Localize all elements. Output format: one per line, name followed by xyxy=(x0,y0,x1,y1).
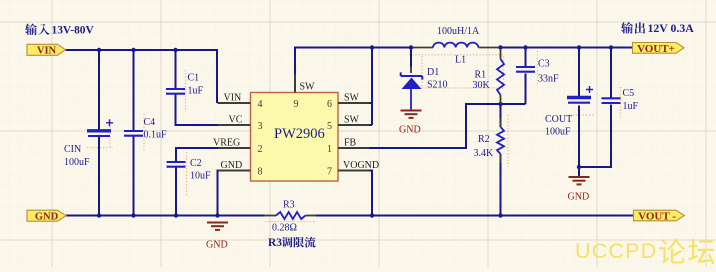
selection mark L1 D1 xyxy=(409,55,504,88)
wire VREG to C2 xyxy=(176,148,218,162)
svg-text:GND: GND xyxy=(399,125,421,136)
svg-text:100uF: 100uF xyxy=(545,127,571,138)
wire R2 bottom xyxy=(500,154,502,216)
resistor R1 30K xyxy=(500,48,502,60)
svg-text:CIN: CIN xyxy=(64,144,81,155)
pin 1 FB stub xyxy=(338,147,369,149)
selection mark C1 xyxy=(185,70,187,112)
wire C5 bottom joins COUT xyxy=(579,105,611,168)
wire bottom rail left xyxy=(66,215,265,217)
svg-text:C1: C1 xyxy=(188,73,200,84)
selection mark C4 xyxy=(143,114,145,152)
capacitor C4 0.1uF xyxy=(124,131,143,136)
pin 9 SW stub top xyxy=(294,74,296,93)
selection mark C2 xyxy=(186,152,188,196)
svg-text:3.4K: 3.4K xyxy=(474,148,495,159)
svg-text:1uF: 1uF xyxy=(623,101,639,112)
svg-text:3: 3 xyxy=(258,121,263,132)
wire D1 top xyxy=(410,48,412,69)
svg-text:VIN: VIN xyxy=(37,46,57,57)
resistor R2 3.4K xyxy=(500,118,502,127)
svg-text:S210: S210 xyxy=(427,80,448,91)
svg-text:0.28Ω: 0.28Ω xyxy=(272,223,297,234)
wire COUT top xyxy=(578,48,580,98)
capacitor C3 33nF xyxy=(516,67,535,72)
svg-text:SW: SW xyxy=(344,93,360,104)
wire C4 bottom xyxy=(133,136,135,216)
wire C3 bottom xyxy=(525,74,527,105)
svg-text:GND: GND xyxy=(206,240,228,251)
wire C4 top xyxy=(133,50,135,131)
wire FB route xyxy=(368,104,501,148)
svg-text:GND: GND xyxy=(35,212,59,223)
svg-text:COUT: COUT xyxy=(545,114,572,125)
svg-text:SW: SW xyxy=(300,82,316,93)
capacitor COUT 100uF xyxy=(567,86,593,103)
svg-text:C5: C5 xyxy=(623,88,635,99)
svg-text:D1: D1 xyxy=(427,67,439,78)
capacitor C1 1uF xyxy=(166,89,185,94)
svg-text:100uF: 100uF xyxy=(64,157,90,168)
svg-text:GND: GND xyxy=(221,160,243,171)
svg-text:R2: R2 xyxy=(478,134,490,145)
svg-text:12V 0.3A: 12V 0.3A xyxy=(648,21,695,35)
port flag VOUT- xyxy=(634,210,685,221)
capacitor C5 1uF xyxy=(602,98,621,103)
svg-text:GND: GND xyxy=(568,192,590,203)
selection mark R3 xyxy=(265,221,316,223)
IC U1 PW2906 body xyxy=(251,93,339,182)
svg-text:VOUT -: VOUT - xyxy=(638,211,676,223)
selection mark C5 xyxy=(620,87,622,117)
svg-text:30K: 30K xyxy=(473,80,491,91)
svg-text:6: 6 xyxy=(327,99,332,110)
wire bottom rail right xyxy=(316,215,634,217)
pin 2 VREG stub xyxy=(218,147,251,149)
svg-text:100uH/1A: 100uH/1A xyxy=(437,26,480,37)
svg-text:R3: R3 xyxy=(268,237,282,249)
svg-text:7: 7 xyxy=(327,167,332,178)
wire C3 top xyxy=(525,48,527,67)
svg-text:VC: VC xyxy=(229,115,243,126)
annotation output 12V 0.3A xyxy=(621,22,633,34)
wire C1 top xyxy=(175,50,177,89)
svg-text:4: 4 xyxy=(258,99,263,110)
pin 5 SW stub xyxy=(338,124,369,126)
svg-text:UCCPD: UCCPD xyxy=(575,239,657,263)
svg-text:FB: FB xyxy=(344,138,357,149)
pin 7 VOGND stub xyxy=(338,170,369,172)
svg-text:9: 9 xyxy=(294,99,299,110)
wire CIN top xyxy=(98,50,100,131)
annotation input 13V-80V xyxy=(25,24,37,36)
wire R2 top xyxy=(500,104,502,127)
svg-text:VIN: VIN xyxy=(224,93,242,104)
selection mark CIN xyxy=(87,120,113,148)
wire VIN rail top-left xyxy=(66,50,218,103)
svg-text:C2: C2 xyxy=(190,158,202,169)
svg-text:5: 5 xyxy=(327,121,332,132)
svg-text:R1: R1 xyxy=(475,70,487,81)
pin 4 VIN stub xyxy=(218,102,251,104)
svg-text:10uF: 10uF xyxy=(190,171,211,182)
capacitor CIN 100uF xyxy=(87,119,113,136)
port flag VIN xyxy=(27,44,66,55)
svg-text:33nF: 33nF xyxy=(538,74,559,85)
pin 8 GND stub xyxy=(218,170,251,172)
svg-text:R3: R3 xyxy=(283,200,295,211)
ground under chip xyxy=(207,223,228,230)
wire GND pin down xyxy=(218,171,220,216)
wire after L1 to VOUT+ xyxy=(498,47,633,49)
selection mark C3 xyxy=(537,51,539,86)
ground under D1 xyxy=(401,111,422,118)
pin numbers xyxy=(258,99,333,178)
svg-text:1uF: 1uF xyxy=(188,86,204,97)
wire SW drop xyxy=(371,48,373,126)
ground output xyxy=(569,177,590,184)
svg-text:L1: L1 xyxy=(455,55,466,66)
svg-text:13V-80V: 13V-80V xyxy=(52,25,95,37)
capacitor C2 10uF xyxy=(167,162,186,167)
inductor L1 100uH/1A xyxy=(413,47,433,49)
wire SW stubs join xyxy=(368,103,372,125)
svg-text:0.1uF: 0.1uF xyxy=(144,130,168,141)
pin 3 VC stub xyxy=(218,124,251,126)
selection mark COUT xyxy=(573,114,595,116)
svg-text:8: 8 xyxy=(258,167,263,178)
svg-text:VOUT+: VOUT+ xyxy=(637,43,675,55)
port flag GND xyxy=(27,210,66,221)
wire SW rail top-right xyxy=(295,48,413,75)
wire C5 top xyxy=(610,48,612,99)
port flag VOUT+ xyxy=(633,43,685,54)
wire C1 to VC xyxy=(176,94,219,125)
wire CIN bottom xyxy=(98,137,100,216)
diode D1 S210 xyxy=(410,66,412,73)
wire R1 bottom to C3 xyxy=(501,103,526,105)
svg-text:C4: C4 xyxy=(144,117,156,128)
resistor R3 0.28ohm xyxy=(265,215,277,217)
selection mark R2 xyxy=(507,115,509,167)
svg-text:VOGND: VOGND xyxy=(343,160,379,171)
wire C2 bottom xyxy=(175,167,177,216)
svg-text:2: 2 xyxy=(258,144,263,155)
svg-text:PW2906: PW2906 xyxy=(274,126,325,142)
svg-text:C3: C3 xyxy=(538,59,550,70)
svg-text:SW: SW xyxy=(344,115,360,126)
wire VOGND down xyxy=(368,171,372,216)
pin 6 SW stub xyxy=(338,102,369,104)
svg-text:1: 1 xyxy=(327,144,332,155)
wire COUT bottom xyxy=(578,106,580,177)
svg-text:VREG: VREG xyxy=(213,138,240,149)
